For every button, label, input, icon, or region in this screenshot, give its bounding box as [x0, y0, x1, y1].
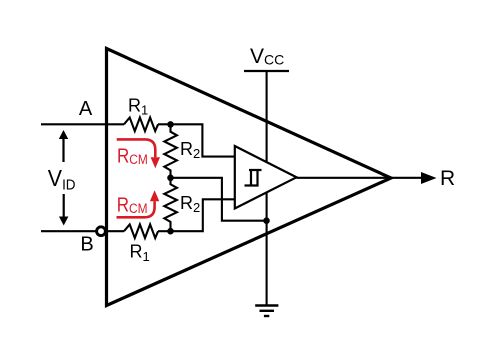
label RCM (bottom, red) — [117, 193, 148, 216]
svg-text:R: R — [440, 167, 455, 190]
junction on ground rail — [263, 217, 270, 224]
resistor R1 (top) — [124, 118, 158, 132]
inverting input bubble on B — [97, 227, 106, 236]
junction node X — [167, 121, 174, 128]
arrow VID up — [62, 138, 64, 162]
arrow RCM bottom (red, curving up) — [117, 201, 155, 217]
svg-text:B: B — [80, 234, 93, 256]
arrow VID down — [63, 194, 65, 217]
arrow RCM top (red, curving down) — [117, 139, 156, 157]
ground symbol — [255, 304, 278, 306]
wire input A — [41, 123, 124, 125]
resistor R2 (bottom) — [164, 178, 177, 231]
wire bubble to R1 bottom — [106, 230, 124, 232]
junction node M (midpoint) — [167, 175, 174, 182]
wire comparator output to R — [297, 177, 423, 179]
svg-text:VCC: VCC — [250, 45, 284, 68]
label VID — [48, 165, 76, 192]
comparator U2 with hysteresis — [235, 146, 297, 209]
svg-text:R2: R2 — [180, 139, 200, 161]
wire input B — [41, 230, 96, 232]
wire comparator ground pin to ground — [266, 193, 268, 306]
wire R1 top to node X — [158, 123, 171, 125]
wire R1 bottom to node Y — [158, 230, 171, 232]
junction node Y — [167, 228, 174, 235]
svg-text:R1: R1 — [128, 95, 148, 117]
resistor R2 (top) — [164, 124, 177, 177]
wire VCC to comparator power pin — [266, 71, 268, 162]
VCC supply bar — [244, 70, 289, 72]
svg-text:R1: R1 — [130, 242, 150, 264]
label RCM (top, red) — [117, 144, 148, 167]
svg-text:RCM: RCM — [117, 193, 148, 216]
svg-text:RCM: RCM — [117, 144, 148, 167]
arrowhead output — [421, 172, 437, 184]
resistor R1 (bottom) — [124, 224, 158, 238]
hysteresis symbol — [245, 170, 262, 186]
wire node M to ground rail — [171, 178, 267, 221]
wire node X to comparator plus input — [171, 124, 235, 156]
svg-text:R2: R2 — [180, 193, 200, 215]
wire node Y to comparator minus input — [171, 199, 235, 231]
svg-text:VID: VID — [48, 165, 76, 192]
svg-text:A: A — [79, 98, 93, 120]
receiver big triangle U1 — [107, 49, 392, 306]
